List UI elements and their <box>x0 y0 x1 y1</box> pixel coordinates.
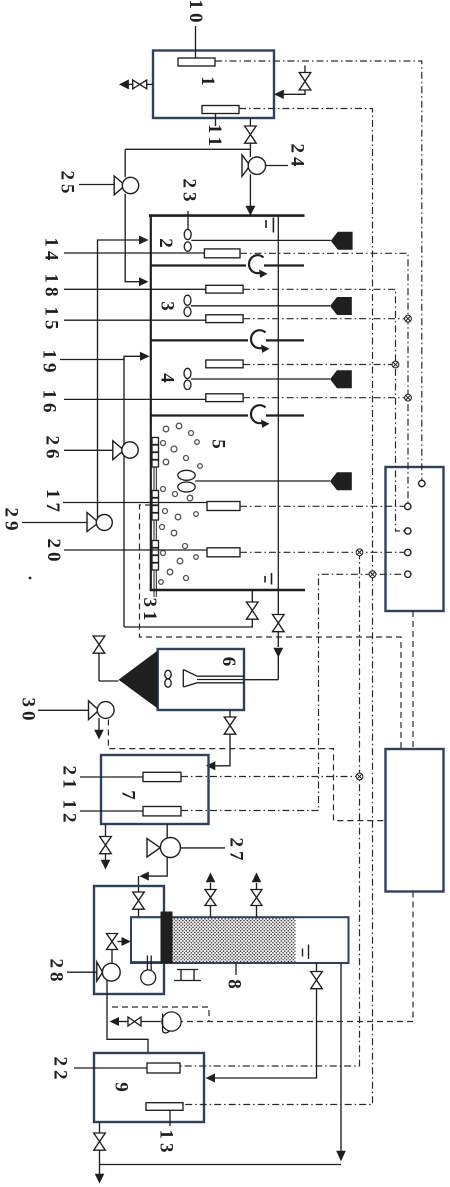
arrow into suction line <box>110 1017 120 1026</box>
wire: tank 9 discharge line <box>100 1164 342 1166</box>
water level mark top <box>265 220 267 228</box>
wire: filter final discharge line <box>340 963 342 1151</box>
wire: waste line valve below pump 29 <box>93 636 105 653</box>
pump 30 <box>89 701 115 720</box>
wire: pump 28 suction line down <box>107 981 148 1054</box>
label 22 leader <box>74 1067 147 1069</box>
aeration diffuser stack 2 <box>152 491 159 521</box>
valve below tank1 <box>245 126 257 143</box>
baffle divider 3 <box>151 414 248 416</box>
valve on filter drain <box>311 972 323 989</box>
sensor 10 probe <box>178 58 215 66</box>
wire: tank 7 left drain <box>105 824 107 837</box>
wire: settler outlet to tank 7 <box>229 710 231 717</box>
label 11 leader <box>215 114 217 127</box>
signal terminal 2 <box>405 503 411 509</box>
flow hook over baffle 2 <box>251 330 266 348</box>
signal lines dash-dot <box>180 61 422 1105</box>
wire: pump 24 discharge down <box>249 174 251 206</box>
svg-text:14: 14 <box>41 238 62 265</box>
dashed control links <box>108 505 413 1022</box>
signal from sensor 11 <box>239 109 373 575</box>
label 20 leader <box>64 549 207 551</box>
svg-text:26: 26 <box>42 436 63 463</box>
wire: recirculation riser through pump 26 <box>123 358 125 627</box>
svg-text:7: 7 <box>118 790 139 800</box>
filter media black bar <box>161 912 173 964</box>
valve B on reactor outlet <box>273 615 285 632</box>
signal from sensor 20 <box>240 551 405 553</box>
stirrer 4 shaft <box>191 378 330 380</box>
dashed box around aeration zone <box>140 505 402 749</box>
wire: pump 28 to filter chamber with valve <box>111 950 113 963</box>
signal terminal 1 <box>419 480 425 486</box>
baffle divider 2 <box>151 339 248 341</box>
sensor rect compartment 2 (label 14) <box>204 249 240 258</box>
label 16 leader <box>64 398 206 400</box>
junction node on row 21 <box>356 773 363 780</box>
svg-text:15: 15 <box>41 307 62 334</box>
valve on filter inlet <box>133 892 145 909</box>
sensor rect compartment 3 lower (label 15) <box>206 315 243 323</box>
pump 29 on waste line <box>87 513 112 532</box>
filter media dots <box>173 918 296 962</box>
label 18 leader <box>64 288 206 290</box>
label 27 leader <box>181 847 225 849</box>
wire: tank1 right inlet pipe <box>283 90 305 94</box>
baffle divider 1 <box>151 264 246 266</box>
sensor rect 12 <box>143 807 181 816</box>
signal branch down to sensor 13 <box>183 574 373 1104</box>
svg-text:13: 13 <box>156 1130 177 1157</box>
period artifact dot <box>29 577 32 580</box>
arrow out left of tank1 <box>119 79 129 89</box>
arrow down at discharge <box>336 1151 346 1162</box>
air pipe 31 <box>154 467 156 597</box>
label 30 leader <box>38 709 88 711</box>
vent valve 1 on filter <box>205 883 216 917</box>
signal from sensor 16 row <box>243 397 408 399</box>
reactor left wall <box>150 216 152 590</box>
label 17 leader <box>63 502 207 504</box>
label 25 leader <box>79 184 114 186</box>
pump 28 <box>97 962 120 981</box>
vent valve 2 on filter <box>251 883 262 917</box>
wire: pump30 outlet arrow <box>98 718 100 730</box>
wire: tank 9 drain <box>99 1122 101 1133</box>
svg-text:6: 6 <box>218 657 239 667</box>
svg-text:29: 29 <box>1 508 22 535</box>
svg-text:22: 22 <box>50 1057 71 1084</box>
wire: filter drain to tank 9 <box>316 963 318 972</box>
svg-text:20: 20 <box>43 539 64 566</box>
filter water level mark <box>302 949 304 957</box>
label 8 leader <box>235 964 237 976</box>
junction node on row 16 <box>405 394 412 401</box>
sensor rect 21 <box>143 772 181 781</box>
svg-text:8: 8 <box>224 979 245 989</box>
svg-text:30: 30 <box>18 698 39 725</box>
dashed hook over blower <box>112 1007 209 1022</box>
arrow into tank 9 <box>206 1074 216 1083</box>
label 15 leader <box>64 319 206 321</box>
pump 24 <box>242 155 266 177</box>
wire: pump 25 discharge down and into compartment 3 <box>125 194 139 282</box>
svg-text:24: 24 <box>287 144 308 171</box>
tank 1 <box>153 51 274 119</box>
valve A below reactor <box>247 602 259 619</box>
arrow into compartment 4 <box>140 352 150 361</box>
label 28 leader <box>67 971 97 973</box>
dashed link box2 to blower <box>182 892 414 1022</box>
water level mark bottom <box>264 576 266 583</box>
stirrer 5 shaft <box>195 480 330 482</box>
svg-text:31: 31 <box>139 598 160 625</box>
svg-text:5: 5 <box>208 439 229 449</box>
svg-text:19: 19 <box>39 350 60 377</box>
valve on blower line <box>128 1017 141 1026</box>
label 24 leader <box>266 165 288 167</box>
aeration diffuser stack 1 <box>152 438 159 468</box>
valve on tank 9 drain <box>94 1133 106 1150</box>
wire: inlet arrow line into compartment 2 <box>98 240 141 522</box>
signal terminal 5 <box>405 571 411 577</box>
wire: sludge drain with valve A below reactor <box>251 590 253 602</box>
wire: tank1 left outlet pipe <box>147 83 153 85</box>
stirrer blades compartment 3 <box>184 295 330 316</box>
settler tank 6 <box>158 649 244 710</box>
arrow into tank1 right side <box>274 90 284 99</box>
arrow into tank 7 <box>206 761 216 770</box>
label 14 leader <box>64 252 204 254</box>
small stirrer in settler <box>165 670 171 678</box>
arrow into reactor top <box>245 206 255 216</box>
bubbles in compartment 5 <box>159 423 203 584</box>
label 23 leader <box>187 211 189 229</box>
filter inlet chamber <box>131 917 162 962</box>
junction node on row 15 <box>405 315 412 322</box>
wire: line from settler cone to waste line <box>98 653 100 681</box>
svg-text:17: 17 <box>42 489 63 516</box>
wire: cross line to pump 25 <box>125 148 250 150</box>
arrow left at filter inlet corner <box>139 872 149 881</box>
svg-text:2: 2 <box>155 238 176 248</box>
svg-text:21: 21 <box>59 766 80 793</box>
backwash blower <box>162 1012 181 1033</box>
settler feed tube <box>197 675 244 677</box>
junction node on row 19 <box>392 361 399 368</box>
arrow down to settler <box>273 648 283 658</box>
motor of stirrer 4 <box>330 370 352 388</box>
signal from sensor 17 <box>240 505 405 507</box>
control box 2 <box>386 749 444 892</box>
label 10 leader <box>195 26 197 58</box>
junction node on row 20 <box>356 549 363 556</box>
svg-text:23: 23 <box>179 179 200 206</box>
sensor rect 17 in compartment 5 <box>207 502 240 511</box>
junction node on row to terminal 5 <box>369 571 376 578</box>
motor of stirrer 2 <box>331 232 353 250</box>
arrow into reactor at y282 <box>139 277 149 286</box>
flow hook over baffle 1 <box>249 255 264 273</box>
reactor top edge <box>149 214 305 217</box>
valve on tank 7 drain <box>100 837 112 854</box>
signal from sensor 21 <box>181 776 360 778</box>
dashed enclosure around tank 7 group <box>108 720 385 821</box>
wire: reactor outlet with valve B <box>277 590 279 615</box>
arrow down from tank 9 drain <box>95 1174 105 1184</box>
svg-text:25: 25 <box>57 171 78 198</box>
stirrer 23 blades compartment 2 <box>184 229 331 251</box>
signal from sensor 14 row <box>240 253 408 503</box>
settler cone <box>119 651 158 709</box>
aeration diffuser stack 3 <box>152 541 159 571</box>
sensor rect compartment 3 upper (label 18) <box>206 285 243 293</box>
sensor rect compartment 4 lower (label 16) <box>206 394 243 402</box>
wire: drain to recirculation line <box>124 619 252 627</box>
wire: outlet down to settler <box>277 632 279 647</box>
signal from sensor 19 row <box>243 364 395 366</box>
label 12 leader <box>80 810 143 812</box>
svg-text:9: 9 <box>111 1082 132 1092</box>
signal from sensor 10 <box>215 61 422 480</box>
stirrer blades compartment 5 <box>178 470 330 492</box>
stirrer 3 shaft <box>191 305 330 307</box>
valve at tank1 right inlet <box>283 66 311 95</box>
sensor rect 13 <box>146 1103 183 1111</box>
motor of stirrer 5 <box>330 472 352 490</box>
tank 9 <box>94 1053 204 1122</box>
svg-text:11: 11 <box>204 124 225 150</box>
svg-text:18: 18 <box>41 274 62 301</box>
control box 1 <box>386 467 444 611</box>
pump 28 enclosure <box>94 886 164 994</box>
signal terminal 3 <box>405 528 411 534</box>
wire: pump 27 discharge to filter inlet <box>148 858 167 877</box>
filter stand <box>174 970 201 981</box>
pump 25 <box>114 176 139 195</box>
stirrer blades compartment 4 <box>184 368 330 389</box>
sensor 11 probe <box>202 106 239 114</box>
valve below settler <box>224 717 236 734</box>
settler feed funnel <box>183 670 197 688</box>
wire: tank1 bottom outlet <box>249 118 251 126</box>
wire: tank 7 outlet to pump 27 <box>166 824 168 838</box>
pump 26 <box>113 441 138 460</box>
label 21 leader <box>80 776 143 778</box>
stirrer 2 shaft <box>191 239 331 241</box>
svg-text:1: 1 <box>197 76 218 86</box>
svg-text:10: 10 <box>185 0 206 27</box>
dashed link box1 to box2 <box>412 611 414 749</box>
reactor bottom edge <box>150 589 305 592</box>
signal from sensor 18 row <box>243 289 405 531</box>
svg-text:4: 4 <box>157 373 178 383</box>
motor of stirrer 3 <box>330 297 352 315</box>
filter 8 vessel <box>131 917 349 963</box>
arrow down from tank7 drain <box>101 860 111 870</box>
svg-text:3: 3 <box>157 301 178 311</box>
pump 27 <box>147 838 180 858</box>
arrow into filter chamber <box>122 937 132 946</box>
svg-text:27: 27 <box>226 838 247 865</box>
valve on tank1 left outlet <box>133 80 147 89</box>
signal terminal 4 <box>405 549 411 555</box>
svg-text:12: 12 <box>59 800 80 827</box>
arrow into compartment 2 <box>139 236 149 245</box>
water level line <box>277 216 279 590</box>
wire: label 19 line and inlet arrow <box>60 356 141 359</box>
tank 7 <box>101 755 209 824</box>
svg-text:16: 16 <box>39 390 60 417</box>
air blower in enclosure <box>141 956 156 986</box>
label 26 leader <box>64 449 113 451</box>
svg-text:28: 28 <box>46 959 67 986</box>
flow hook over baffle 3 <box>251 405 266 423</box>
sensor rect 22 <box>147 1063 180 1073</box>
wire: valve to pump 24 <box>249 143 251 157</box>
sensor rect 20 in compartment 5 <box>207 548 240 557</box>
sensor rect compartment 4 upper (label 19 inlet row) <box>206 360 243 368</box>
label 13 leader <box>169 1110 171 1126</box>
wire: blower to line with valve <box>141 1021 161 1023</box>
signal from sensor 15 row <box>243 318 408 320</box>
wire: pump 25 riser <box>124 149 126 177</box>
signal branch down from node 20 <box>180 552 360 1066</box>
label 29 leader <box>22 522 87 524</box>
signal from sensor 12 <box>181 574 405 810</box>
